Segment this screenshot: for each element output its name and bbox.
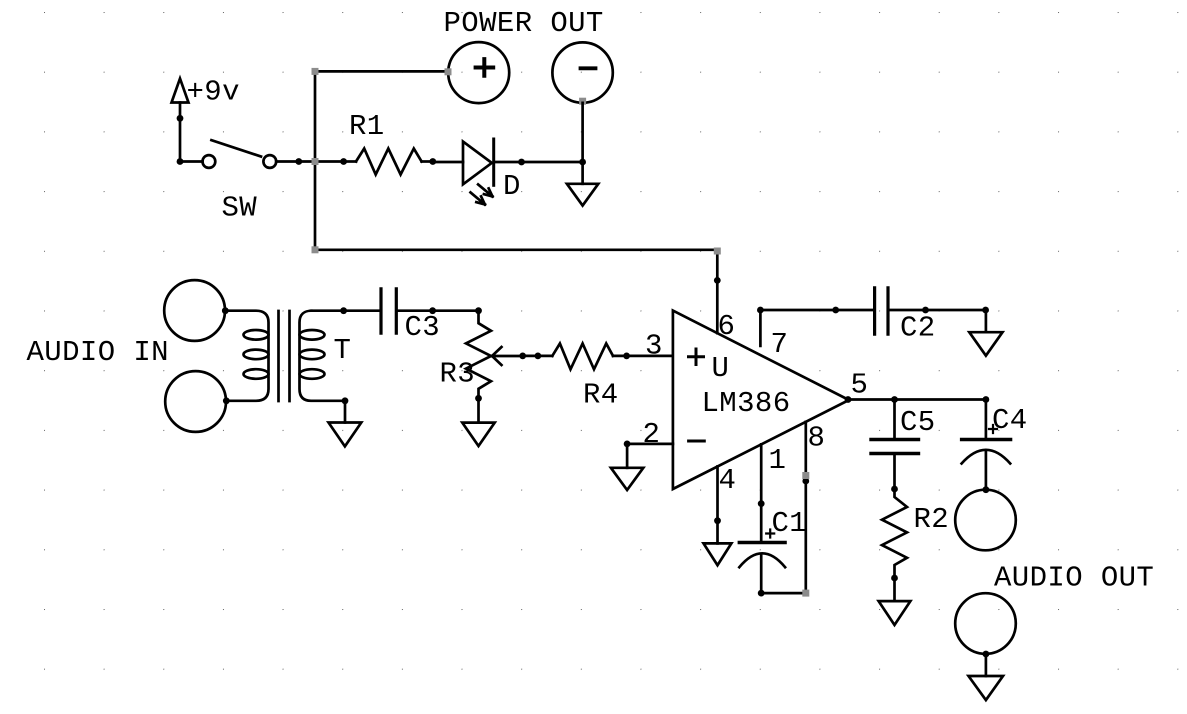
- gray node marker: [312, 158, 319, 165]
- svg-text:8: 8: [808, 422, 826, 455]
- node dot: [758, 500, 765, 507]
- gray node marker: [312, 246, 319, 253]
- node dot: [579, 159, 586, 166]
- wire pin1 to C1: [760, 444, 763, 542]
- wire R4 to pin3: [613, 355, 673, 358]
- plus sign: [476, 59, 494, 76]
- node dot: [757, 307, 764, 314]
- ground under audio out: [969, 676, 1004, 700]
- node dot: [535, 353, 542, 360]
- wire pin2: [626, 443, 673, 446]
- svg-text:LM386: LM386: [702, 387, 791, 420]
- svg-text:D: D: [503, 170, 521, 203]
- wire C4 to audio out: [985, 452, 988, 490]
- terminal AUDIO IN bottom circle: [165, 371, 226, 432]
- node dot: [983, 651, 990, 658]
- capacitor C3: [381, 289, 396, 333]
- node dot: [891, 396, 898, 403]
- wire to switch: [180, 160, 203, 163]
- svg-text:4: 4: [719, 464, 737, 497]
- switch SW blade: [211, 140, 261, 156]
- resistor R4: [552, 344, 613, 370]
- wire +9v stem: [179, 103, 182, 162]
- resistor R2: [882, 489, 907, 578]
- node dot: [983, 486, 990, 493]
- wire C1 bottom to pin8: [761, 422, 806, 593]
- transformer T primary coil: [244, 330, 269, 340]
- op-amp U LM386: [673, 311, 849, 489]
- node dot: [475, 395, 482, 402]
- svg-text:7: 7: [771, 328, 789, 361]
- wire top rail to plus terminal: [315, 70, 448, 73]
- svg-text:U: U: [712, 352, 730, 385]
- power flag +9v: [172, 79, 189, 103]
- wire R1 left lead: [344, 160, 356, 163]
- svg-text:T: T: [334, 334, 352, 367]
- wire pin7 to C2: [760, 310, 873, 346]
- transformer T secondary coil: [300, 330, 325, 340]
- node dot: [891, 575, 898, 582]
- gray node marker: [802, 590, 809, 597]
- wire C4 top lead: [985, 400, 988, 438]
- wire pin4: [716, 467, 719, 544]
- op-amp minus input sign: [689, 440, 705, 443]
- switch SW contact right: [263, 155, 276, 168]
- svg-text:C1: C1: [772, 507, 808, 540]
- gray node marker: [312, 68, 319, 75]
- node dot: [518, 159, 525, 166]
- wire C5 top lead: [893, 400, 896, 438]
- op-amp plus input sign: [689, 349, 704, 365]
- ground under transformer: [329, 423, 362, 447]
- wire R2 to ground: [893, 578, 896, 601]
- capacitor C5: [871, 440, 919, 454]
- node dot: [832, 307, 839, 314]
- wire pin5 output: [849, 398, 986, 401]
- node dot: [623, 353, 630, 360]
- node dot: [429, 158, 436, 165]
- node dot: [845, 396, 852, 403]
- capacitor C4 plate: [962, 438, 1011, 441]
- node dot: [983, 396, 990, 403]
- terminal AUDIO OUT bottom circle: [955, 593, 1016, 654]
- node dot: [429, 307, 436, 314]
- terminal AUDIO OUT top circle: [955, 490, 1016, 551]
- potentiometer R3 body: [466, 311, 491, 399]
- node dot corner at switch: [177, 158, 184, 165]
- wire long rail to pin6: [315, 248, 717, 251]
- svg-text:SW: SW: [222, 192, 258, 225]
- svg-text:R4: R4: [583, 379, 619, 412]
- node dot: [714, 277, 721, 284]
- capacitor C4 curved plate: [962, 450, 1011, 464]
- wire wiper to R4: [523, 355, 553, 358]
- terminal POWER plus circle: [448, 42, 509, 103]
- capacitor C4 plus sign: [989, 425, 997, 433]
- node dot: [714, 517, 721, 524]
- wire to LED: [433, 161, 463, 164]
- node dot: [340, 158, 347, 165]
- capacitor C1 curved plate: [739, 553, 785, 567]
- svg-text:AUDIO OUT: AUDIO OUT: [994, 562, 1154, 595]
- node dot: [922, 307, 929, 314]
- node dot: [342, 397, 349, 404]
- minus sign: [581, 66, 596, 70]
- gray node marker: [445, 68, 452, 75]
- wire pin6: [716, 250, 719, 333]
- node dot: [624, 441, 631, 448]
- node dot: [891, 486, 898, 493]
- gray node marker: [714, 248, 721, 255]
- ground at pin2: [611, 468, 643, 490]
- svg-text:R2: R2: [914, 503, 950, 536]
- ground under R3: [462, 423, 494, 446]
- ground under C2: [969, 332, 1002, 356]
- node dot: [519, 353, 526, 360]
- node dot: [340, 307, 347, 314]
- transformer T secondary lead: [300, 311, 346, 401]
- svg-text:1: 1: [769, 444, 787, 477]
- svg-text:R1: R1: [349, 110, 385, 143]
- node dot: [223, 397, 230, 404]
- wire R3 to ground: [477, 398, 480, 422]
- capacitor C1 plate: [739, 541, 785, 544]
- terminal POWER minus circle: [552, 42, 612, 102]
- wire secondary top to C3: [311, 309, 380, 312]
- transformer T primary lead top: [225, 311, 269, 401]
- wire minus terminal down: [581, 103, 584, 184]
- svg-text:6: 6: [718, 310, 736, 343]
- resistor R1: [356, 149, 422, 175]
- node dot: [295, 158, 302, 165]
- wire vertical rail x315: [314, 71, 317, 249]
- ground at pin4: [704, 543, 732, 565]
- svg-text:+9v: +9v: [187, 76, 240, 109]
- node dot: [802, 478, 809, 485]
- LED D cathode bar: [492, 139, 495, 185]
- svg-text:C4: C4: [992, 404, 1028, 437]
- wire pin2 ground stem: [626, 444, 629, 468]
- ground under minus terminal: [567, 184, 598, 206]
- wire switch to R1: [276, 160, 343, 163]
- wire audio out to ground: [985, 654, 988, 676]
- svg-text:C2: C2: [900, 312, 936, 345]
- node dot: [475, 307, 482, 314]
- gray node marker: [802, 472, 809, 479]
- capacitor C2: [875, 288, 888, 334]
- LED D arrow 2: [471, 192, 485, 204]
- LED D arrow 1: [478, 184, 492, 196]
- ground under R2: [879, 601, 911, 625]
- svg-text:C5: C5: [900, 406, 936, 439]
- node dot: [758, 590, 765, 597]
- LED D triangle: [463, 142, 492, 185]
- wire secondary bottom to ground: [344, 401, 347, 423]
- svg-text:C3: C3: [405, 311, 441, 344]
- node dot: [982, 307, 989, 314]
- svg-text:R3: R3: [440, 358, 476, 391]
- potentiometer R3 wiper arrow: [492, 347, 523, 365]
- wire LED to minus rail: [494, 161, 583, 164]
- node dot: [222, 307, 229, 314]
- terminal AUDIO IN top circle: [164, 280, 225, 341]
- transformer T core: [279, 311, 290, 401]
- svg-text:POWER OUT: POWER OUT: [444, 7, 604, 40]
- node dot on +9v stem: [177, 115, 184, 122]
- svg-text:2: 2: [643, 418, 661, 451]
- wire C3 to R3: [398, 309, 479, 312]
- svg-text:5: 5: [851, 369, 869, 402]
- svg-text:3: 3: [645, 330, 663, 363]
- wire R1 right lead: [422, 160, 433, 163]
- wire C2 to ground: [890, 310, 986, 332]
- switch SW contact left: [203, 155, 216, 168]
- svg-text:AUDIO IN: AUDIO IN: [27, 336, 169, 369]
- wire C5 bottom lead: [893, 455, 896, 489]
- capacitor C1 plus sign: [766, 530, 774, 538]
- gray node marker: [579, 98, 586, 105]
